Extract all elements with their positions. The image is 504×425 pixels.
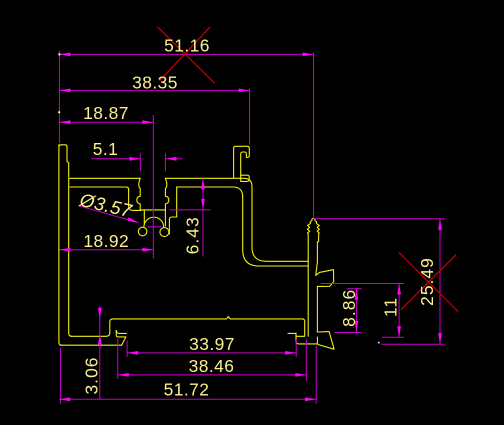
arrow 3.06 up	[98, 334, 102, 345]
ext line 5.1 left	[139, 153, 141, 171]
ext line right 51.16	[313, 52, 315, 217]
arrow 5.1 right	[166, 157, 177, 161]
arrow 33.97 left	[127, 351, 138, 355]
ext line 8.86 top	[347, 288, 362, 290]
arrow 6.43 down	[201, 199, 205, 210]
arrow 33.97 right	[285, 351, 296, 355]
defpoint dot on left extension line	[58, 111, 60, 113]
svg-text:38.46: 38.46	[189, 356, 235, 376]
arrow 25.49 up	[438, 219, 442, 230]
ext line 6.43 bottom	[169, 209, 210, 211]
revision cross X1	[158, 27, 214, 83]
profile upper fin	[316, 262, 334, 287]
dim line 51.72	[59, 398, 316, 400]
svg-text:25.49: 25.49	[417, 257, 437, 306]
profile clip tower lip	[241, 175, 250, 181]
dim line 6.43	[202, 178, 204, 256]
arrow 8.86 down	[355, 321, 359, 332]
dim line 51.16	[59, 53, 313, 55]
arrow 38.46 right	[295, 373, 306, 377]
arrow 11 up	[397, 284, 401, 295]
svg-text:11: 11	[380, 297, 400, 317]
svg-text:8.86: 8.86	[339, 289, 359, 327]
ext line 11 bottom	[382, 336, 405, 338]
dim line 5.1 left seg	[92, 158, 141, 160]
profile slab underside right stub	[288, 332, 296, 334]
arrow 11 down	[397, 326, 401, 337]
profile right wall outer middle	[316, 286, 318, 332]
profile slab top	[112, 317, 305, 337]
arrow 51.16 left	[59, 53, 70, 57]
profile slab right end	[296, 333, 317, 344]
arrow 3.06 down	[98, 308, 102, 319]
svg-text:33.97: 33.97	[189, 334, 235, 354]
defpoint dot at 51.16 left arrow	[58, 53, 60, 55]
arrow 51.16 right	[303, 53, 314, 57]
dim line 5.1 right seg	[166, 158, 183, 160]
profile right wall inner	[307, 242, 309, 337]
dim line 38.46	[118, 374, 306, 376]
dim line 38.35	[59, 89, 249, 91]
defpoint dot near 25.49 bottom extension	[378, 342, 380, 344]
arrow 6.43 up	[201, 178, 205, 189]
arrow 51.72 left	[59, 397, 70, 401]
arrow 18.92 right	[142, 248, 153, 252]
profile slot right wall	[165, 178, 168, 210]
arrow 25.49 down	[438, 333, 442, 344]
arrow 38.46 left	[118, 373, 129, 377]
profile slab left leg	[110, 319, 113, 333]
dim line 33.97	[127, 352, 296, 354]
dim line 25.49	[439, 219, 441, 345]
profile lower fin	[317, 332, 334, 350]
profile slot left wall	[137, 178, 140, 210]
ext line 8.86 bottom	[335, 332, 362, 334]
ext line left top	[58, 51, 60, 143]
profile cavity floor	[71, 333, 110, 337]
profile screw channel horseshoe arc	[144, 217, 164, 227]
dim line 11	[398, 284, 400, 338]
profile web top right	[165, 178, 308, 261]
profile slab underside left stub	[116, 331, 126, 334]
ext line right 38.35	[249, 89, 251, 145]
profile bottom outer edge left	[61, 344, 122, 346]
ext line 38.46 left	[117, 339, 119, 379]
profile right shelf	[169, 187, 176, 234]
profile left shelf step	[129, 189, 141, 210]
profile slab left foot	[116, 331, 126, 346]
arrow 18.92 left	[59, 248, 70, 252]
dim line 18.92	[59, 249, 153, 251]
ext line 11 top	[321, 283, 404, 285]
svg-text:18.87: 18.87	[83, 103, 129, 123]
profile clip tower outer	[234, 146, 250, 178]
arrow 38.35 right	[239, 89, 250, 93]
profile screw boss serrated	[308, 218, 320, 241]
profile clip tower inner	[241, 152, 247, 181]
svg-text:51.72: 51.72	[164, 380, 210, 400]
arrow 8.86 up	[355, 289, 359, 300]
profile web bottom left	[70, 187, 129, 190]
dim line 8.86	[355, 289, 357, 332]
arrow 18.87 right	[142, 120, 153, 124]
arrow dia3.57	[128, 217, 139, 223]
svg-text:51.16: 51.16	[164, 36, 210, 56]
ext line 38.46 right	[305, 339, 307, 381]
ext line 33.97 left	[126, 341, 128, 357]
ext line 25.49 bottom	[381, 343, 445, 345]
dim line 18.87	[59, 121, 153, 123]
ext line 25.49 top	[314, 218, 445, 220]
center mark horizontal	[148, 226, 162, 228]
profile web top left	[69, 177, 141, 179]
arrow 18.87 left	[59, 120, 70, 124]
ext line 33.97 right	[295, 340, 297, 357]
profile screw channel right foot	[160, 228, 169, 237]
revision cross X2	[399, 253, 458, 311]
arrow 5.1 left	[129, 157, 140, 161]
leader dia3.57	[79, 206, 139, 223]
ext line 51.72 left	[59, 348, 61, 404]
profile screw boss stub left	[143, 210, 145, 224]
svg-text:18.92: 18.92	[83, 231, 129, 251]
ext line 5.1 right	[164, 153, 166, 171]
svg-text:3.06: 3.06	[81, 356, 101, 394]
svg-text:5.1: 5.1	[93, 139, 119, 159]
profile right wall outer upper	[316, 242, 318, 262]
profile screw boss stub right	[164, 210, 166, 226]
arrow 38.35 left	[59, 89, 70, 93]
profile top lip	[59, 145, 69, 177]
dim line 3.06	[99, 306, 101, 399]
arrow 51.72 right	[305, 397, 316, 401]
svg-text:38.35: 38.35	[132, 72, 178, 92]
profile left wall inner	[69, 179, 72, 337]
svg-text:6.43: 6.43	[182, 216, 202, 254]
profile left wall outer	[59, 145, 62, 345]
center line slot	[152, 115, 154, 258]
profile web bottom right	[177, 187, 309, 266]
profile screw channel left foot	[138, 227, 147, 236]
profile slot floor	[140, 209, 165, 211]
ext line 51.72 right	[315, 346, 317, 404]
